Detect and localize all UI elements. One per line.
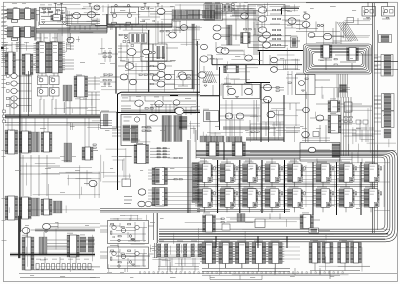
bottom array thread wires	[160, 247, 300, 259]
transistor Q3	[112, 225, 116, 229]
left margin net label 7	[2, 47, 9, 50]
IC pair block W1	[309, 241, 333, 264]
IC U6 left pins	[36, 42, 40, 73]
terminal grid drop wires	[161, 242, 194, 245]
transistor Q1	[112, 13, 116, 17]
wire U8-U9	[16, 59, 23, 61]
mesh3 r3c3b	[151, 244, 200, 257]
gate B3	[258, 27, 266, 33]
IC U9 left pins	[22, 54, 25, 75]
gate K16	[236, 113, 244, 119]
bus verticals x254	[254, 10, 258, 55]
gate B5b	[180, 25, 187, 31]
bus band B	[5, 115, 100, 119]
labels bl	[124, 196, 132, 204]
IC U2 right pins	[31, 9, 34, 19]
IC U11 body	[349, 48, 356, 61]
IC U21 label	[136, 142, 143, 145]
gates group box	[248, 5, 285, 48]
connector J4 hatch	[214, 5, 221, 20]
wire mesh J inner2	[130, 107, 200, 142]
wires tile300 top	[296, 16, 344, 37]
relay K2 contacts	[383, 8, 385, 16]
trunk x197	[196, 41, 198, 111]
gate D4	[11, 96, 17, 101]
thick bus drop x157	[156, 213, 158, 243]
ctrl box	[101, 112, 117, 129]
thick bus step V a	[211, 55, 213, 65]
resistor C4b	[61, 12, 64, 13]
analog box L1	[296, 75, 316, 95]
array bus separator r5	[312, 162, 314, 215]
op-amp L2	[299, 81, 305, 86]
IC U7 body	[52, 42, 59, 73]
resistor R19b	[118, 262, 121, 263]
bus diag bundle NE	[337, 22, 358, 41]
jumper row	[36, 264, 91, 270]
small box L7	[313, 132, 319, 137]
small box S1	[222, 224, 230, 230]
wires busB to U13	[8, 118, 89, 147]
box P5 strip2	[162, 46, 166, 59]
U7 stub wires	[63, 44, 66, 70]
resistor R1	[43, 8, 46, 9]
wire elbow ext	[66, 25, 95, 27]
mesh2 r0c5b	[277, 55, 298, 70]
bus band A1	[36, 29, 107, 33]
long wire top right	[335, 22, 372, 56]
wire vcc3 feed	[91, 7, 93, 12]
IC U5 left pins	[51, 15, 53, 20]
IC U18 right pins	[28, 197, 31, 219]
gate B1	[258, 7, 266, 13]
gate D3	[11, 88, 17, 93]
IC U20 label b	[124, 120, 130, 123]
IC U28 left pins	[232, 142, 235, 156]
IC U20 vco circle	[134, 117, 139, 122]
wires J lower mesh	[150, 104, 196, 115]
mesh2 r0c3	[156, 6, 200, 46]
ground sym G2	[62, 22, 65, 24]
gate H2	[155, 101, 163, 107]
labels under Q2	[36, 258, 89, 261]
thick bus step H f	[246, 82, 270, 84]
resistor pair PLL2	[142, 127, 150, 132]
IC U30 body	[70, 235, 77, 257]
gate C3	[323, 33, 331, 39]
sync box M1	[300, 143, 340, 162]
resistor R17	[118, 236, 121, 237]
gate A5	[94, 5, 100, 10]
driver box1 extra parts	[110, 222, 146, 242]
diodes C int	[48, 11, 53, 13]
power tee F1	[144, 3, 147, 6]
connector J12 hatch	[53, 201, 62, 213]
power tee NE	[304, 12, 307, 16]
IC U15 right pins	[50, 132, 53, 152]
wire D4	[17, 98, 31, 100]
logic box E3	[38, 88, 49, 97]
wire mesh Q bottom	[27, 224, 101, 272]
gate B4 fix	[263, 42, 271, 48]
IC bottom array 2	[217, 241, 235, 269]
IC U33 box	[129, 33, 147, 43]
IC U12 left pins	[74, 76, 77, 97]
wires analog mesh	[118, 35, 178, 67]
IC U3 body	[13, 27, 20, 38]
bottom rule tick marks	[140, 272, 344, 274]
connector J23 hatch	[237, 214, 245, 222]
connector J10 hatch	[64, 143, 72, 162]
ground sym L3	[301, 90, 304, 92]
wires L mesh	[296, 88, 374, 142]
resistor R4	[93, 144, 96, 145]
IC U29 body	[25, 237, 31, 270]
wires 300 lower	[302, 128, 374, 142]
jumper row wire	[34, 269, 94, 271]
IC array row1 col4	[263, 162, 283, 188]
tick marks T4	[176, 77, 188, 86]
IC U11 left pins	[347, 48, 350, 61]
resistor R14	[305, 78, 308, 79]
connector J3 hatch	[206, 5, 214, 20]
IC U31 left pins	[203, 215, 206, 232]
IC U33 strip1	[131, 34, 135, 42]
IC array row2 col3	[240, 187, 260, 213]
resistor pair row3	[150, 154, 170, 155]
right trunk wire 3	[377, 30, 379, 230]
labels above boxC	[40, 4, 62, 7]
input box row4	[7, 97, 10, 99]
ground sym N5	[131, 264, 134, 266]
inductor L2	[127, 4, 129, 6]
diode pair P7	[149, 51, 155, 54]
bus bundle V x227	[227, 25, 233, 45]
input box row2	[7, 82, 10, 84]
array interconnect wires	[162, 165, 384, 207]
op-amp T4	[179, 74, 186, 80]
mesh2 r0c5	[263, 4, 298, 12]
gate A4	[157, 8, 165, 14]
bus band A1 top edge	[36, 28, 107, 30]
connector J20 hatch	[39, 237, 47, 255]
op-amp P6	[157, 63, 165, 70]
IC U5 label	[54, 16, 59, 19]
wire B5b	[176, 27, 196, 29]
wires mesh tl1	[36, 11, 90, 43]
connector J21 hatch	[80, 237, 86, 252]
smudges mid	[100, 48, 122, 64]
resistor R25	[166, 31, 169, 32]
comparator box T3	[175, 71, 193, 89]
IC array row2 col1	[195, 187, 215, 213]
bus band A2	[107, 23, 172, 27]
connector J19	[382, 111, 395, 128]
transistor Q7	[121, 254, 125, 258]
logic box P3	[141, 44, 153, 61]
IC pair block W2	[338, 241, 362, 264]
wires below W blocks	[310, 263, 360, 279]
wires box1	[109, 223, 147, 241]
smudge L labels	[296, 73, 390, 116]
IC U32 body	[303, 215, 311, 229]
IC array row1 col5	[285, 162, 305, 188]
connector J14 hatch	[174, 116, 183, 142]
IC U20 frame	[121, 114, 146, 145]
flipflop box outline	[108, 7, 139, 24]
IC U5 body	[53, 15, 61, 21]
relay K1 contacts	[364, 8, 367, 16]
left margin label column	[1, 6, 6, 67]
ground sym K11	[235, 97, 238, 99]
logic box E2	[50, 76, 60, 85]
relay K1 coil	[363, 9, 374, 13]
wires right of U12	[88, 76, 100, 90]
wires under J1	[158, 21, 180, 44]
logic box P5	[153, 44, 167, 61]
small box K14	[204, 111, 219, 122]
oscillator box outline	[40, 7, 67, 24]
trunk x268	[268, 100, 270, 142]
IC array row2 col2	[218, 187, 238, 213]
IC U4 right pins	[31, 27, 34, 38]
bus B left drops	[154, 213, 157, 258]
bottom bus drop 2	[257, 236, 259, 248]
left margin net label 5	[2, 24, 8, 27]
bus band K bottom1	[223, 127, 270, 131]
IC U19 body	[44, 199, 50, 215]
array bus separator 1	[217, 160, 219, 213]
bus K extra stubs	[221, 84, 252, 96]
connector J11 hatch	[32, 198, 40, 216]
label box Q1	[112, 22, 117, 24]
gate P8	[169, 32, 177, 38]
mesh2 r0c4	[216, 50, 258, 70]
wires right of U7	[38, 60, 74, 76]
IC array row2 col4	[263, 187, 283, 213]
wire mesh top center	[101, 4, 215, 30]
wire to B5	[230, 15, 240, 17]
wires K mid mesh	[220, 71, 298, 136]
wire A2 out	[96, 14, 101, 16]
gate B5	[241, 13, 249, 19]
wires band A region	[40, 26, 100, 42]
ground sym G1	[42, 22, 45, 24]
small cap F3	[143, 20, 144, 22]
wire osc internal	[41, 7, 62, 16]
gate G2	[129, 79, 136, 85]
wires PLL left exit	[100, 121, 112, 126]
smudge array top	[200, 160, 342, 163]
thick border region J	[118, 92, 201, 190]
mesh2 r3c2	[109, 244, 150, 272]
op-amp K18	[175, 108, 184, 115]
IC U7 left pins	[49, 42, 52, 73]
gate L4	[303, 107, 310, 112]
wires above array	[200, 152, 300, 159]
gate D2	[11, 81, 17, 86]
wires to J18	[374, 100, 381, 108]
array bus separator 2	[239, 160, 241, 213]
gate G1	[120, 74, 128, 80]
small box X4	[122, 179, 131, 187]
resistors RB3	[273, 29, 281, 30]
gate X3	[145, 201, 152, 206]
wire mesh right mid	[316, 106, 372, 155]
long verticals mid	[196, 111, 197, 159]
gate T1	[157, 71, 165, 77]
box K14 hatch	[206, 112, 210, 120]
IC U2 label	[25, 6, 29, 9]
labels under cluster	[37, 37, 58, 40]
wires left of driver boxes	[100, 226, 108, 258]
trunk x261	[260, 83, 262, 143]
resistors T in	[150, 65, 153, 84]
region J border thin lines	[121, 94, 200, 96]
bus trunk right of U2	[35, 8, 36, 41]
wire stubs J18/19	[374, 96, 381, 134]
PLL frame stubs	[112, 127, 152, 136]
IC bottom array 5	[267, 241, 285, 269]
wire mesh below bus S	[174, 217, 390, 244]
bus lines to left	[100, 209, 200, 213]
capacitor C2	[49, 11, 50, 13]
small parts left edge	[3, 110, 6, 123]
bus band below J1	[172, 19, 215, 21]
wires K right	[262, 103, 300, 110]
IC U20 label a	[124, 116, 132, 119]
wires boxC	[41, 10, 66, 20]
wires right conns	[374, 55, 378, 66]
gate K4	[200, 56, 208, 62]
IC U34 right pins	[248, 33, 250, 44]
IC array row2 col5	[285, 187, 305, 213]
bus band A3	[215, 12, 256, 14]
IC U13 left pins	[5, 130, 8, 154]
bus band Q1	[35, 229, 95, 232]
resistor pair row4	[150, 157, 170, 158]
gate D5	[11, 103, 17, 108]
gate K15	[225, 113, 233, 119]
small box S3	[309, 228, 319, 233]
wire A1-A2	[81, 14, 88, 16]
margin labels bottom	[2, 150, 7, 241]
wires S top mesh	[216, 214, 330, 231]
wire mesh K low	[206, 124, 300, 142]
left margin net label 1	[2, 8, 9, 11]
IC U26 right pins	[339, 115, 342, 133]
left margin net label 4	[2, 20, 7, 23]
transistor Q4	[121, 228, 125, 232]
wires g mesh	[207, 5, 300, 56]
gate B3 fix	[263, 32, 271, 38]
mesh3 r1c1b	[67, 121, 100, 130]
label box U1	[11, 20, 17, 22]
capacitor C3	[147, 8, 148, 10]
gate NE2	[303, 14, 310, 19]
mesh2 r1c4	[224, 72, 250, 84]
parts c6 extra	[340, 112, 356, 133]
terminal grid 2	[177, 244, 187, 257]
gate Q1g	[221, 48, 229, 54]
bus band B edges	[5, 115, 100, 118]
mesh2 r3c3	[152, 259, 200, 272]
gate B4	[258, 36, 266, 42]
thick wire L1	[282, 8, 300, 14]
bottom array bus	[202, 268, 290, 271]
gate B8	[201, 44, 208, 49]
gate A3	[67, 37, 74, 43]
IC U13 body	[8, 130, 15, 154]
wire to F1	[84, 183, 89, 185]
bus band Q2	[10, 253, 95, 256]
IC U16 body	[85, 147, 91, 160]
parts c7 extra	[356, 120, 374, 142]
gate D1	[11, 73, 17, 78]
wire mesh box C right	[37, 7, 100, 26]
wires f mesh	[112, 5, 226, 30]
IC U32 left pins	[300, 215, 303, 229]
resistor R18	[111, 250, 114, 251]
IC U8 left pins	[5, 52, 8, 75]
top corner labels	[12, 2, 26, 5]
gate X2	[138, 201, 145, 207]
resistors T4 out	[187, 75, 190, 79]
nested bus loop B	[159, 150, 397, 242]
wire mesh mid-left	[20, 155, 60, 196]
logic circle E3	[39, 90, 43, 94]
IC U23 body	[155, 188, 165, 207]
resistor R12	[276, 87, 279, 88]
bus band A1 bot edge	[36, 32, 107, 34]
IC U12 label	[76, 74, 82, 77]
gate F1	[89, 180, 97, 186]
wire D1	[17, 75, 31, 77]
IC U21 body	[137, 145, 146, 164]
IC U28 right pins	[243, 142, 246, 156]
thick wire K2	[170, 95, 178, 97]
hatch band above PLL	[121, 110, 200, 112]
logic circle E4	[51, 90, 55, 94]
bus band V x192	[192, 24, 195, 89]
resistor pairs right U22	[168, 157, 183, 180]
power tee F2	[157, 3, 160, 6]
wire to gate A1	[66, 15, 73, 17]
wire mesh top strip	[215, 3, 300, 30]
wires R mesh	[100, 218, 154, 272]
gate A2	[88, 12, 96, 18]
wire L out	[315, 79, 330, 81]
transistor Q8	[135, 251, 139, 255]
left margin net label 8	[2, 51, 7, 54]
transistor Q2	[127, 13, 131, 17]
IC U4 body	[25, 27, 31, 38]
mesh3 r1c4b	[203, 107, 258, 136]
logic circle E1	[39, 78, 43, 82]
IC bottom array 1	[200, 241, 218, 269]
gate H4	[174, 108, 181, 114]
diode pair D1	[317, 24, 323, 27]
wires analog mesh2	[118, 33, 165, 71]
driver box2 extra parts	[110, 249, 146, 267]
res array RA1	[291, 37, 298, 48]
bus bundle below nest	[337, 74, 348, 98]
res rows mid	[98, 50, 118, 62]
box P5 strip1	[157, 46, 161, 59]
IC U16 right pins	[91, 147, 94, 160]
connector J6	[381, 55, 393, 77]
parts left JT	[100, 73, 116, 87]
